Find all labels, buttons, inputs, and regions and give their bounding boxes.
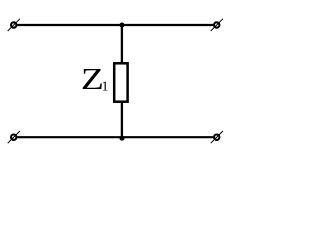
wire top-right segment — [122, 24, 213, 26]
terminal port top-right — [211, 19, 223, 31]
terminal port bottom-right — [211, 131, 223, 143]
terminal port top-left — [8, 19, 20, 31]
impedance Z1 (rectangular body) — [114, 63, 127, 101]
terminal port bottom-left — [8, 131, 20, 143]
wire vertical lower (Z1 bottom to node B) — [121, 102, 123, 137]
svg-text:Z: Z — [81, 61, 104, 96]
wire top-left segment — [17, 24, 122, 26]
svg-text:1: 1 — [102, 79, 109, 94]
wire bottom-left segment — [17, 136, 122, 138]
node A (top junction dot) — [119, 22, 124, 27]
value label Z1 — [81, 61, 109, 96]
node B (bottom junction dot) — [119, 136, 124, 141]
wire vertical upper (node A to Z1 top) — [121, 25, 123, 63]
wire bottom-right segment — [122, 136, 213, 138]
